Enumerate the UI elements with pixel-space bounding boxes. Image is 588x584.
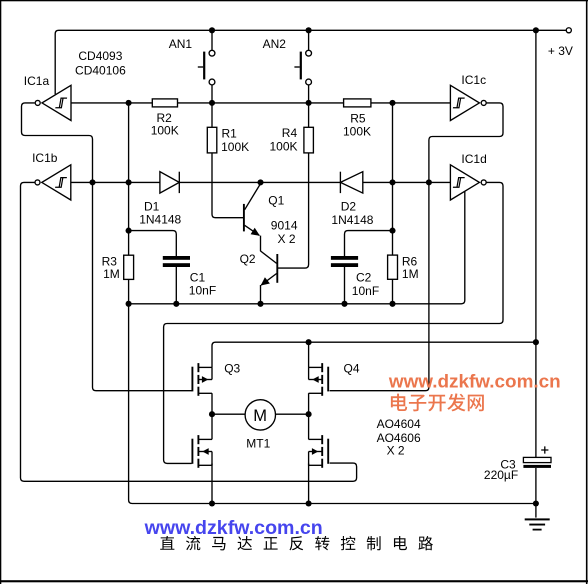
svg-text:100K: 100K [343, 125, 371, 139]
wire H-bridge top rail [212, 342, 536, 367]
svg-text:IC1a: IC1a [24, 74, 50, 88]
op-amp gate IC1b [35, 165, 71, 200]
svg-text:X 2: X 2 [387, 443, 405, 457]
wire R2 to AN1 node [178, 102, 213, 104]
wire IC1b output to Q4 lower gate [21, 182, 357, 481]
resistor R2 [152, 99, 177, 107]
wire R4 bottom to Q2 base [278, 153, 309, 268]
transistor Q4 upper MOSFET [309, 363, 329, 396]
wire D2 anode to IC1d input [363, 181, 451, 183]
push button AN1 [198, 50, 215, 85]
svg-text:MT1: MT1 [246, 437, 270, 451]
node ground rail Q3 junction [209, 500, 215, 506]
wire lower rail to IC1d pin [129, 191, 465, 304]
wire IC1a output to IC1b input [22, 103, 93, 182]
svg-text:100K: 100K [151, 124, 179, 138]
node rail R3 junction [126, 301, 132, 307]
wire motor left lead [212, 413, 245, 415]
wire AN2 bottom stub [308, 85, 310, 103]
op-amp gate IC1d [450, 165, 486, 200]
node rail C1 junction [173, 301, 179, 307]
transistor Q1 [244, 184, 261, 251]
node D mid junction [389, 179, 395, 185]
svg-text:www.dzkfw.com.cn: www.dzkfw.com.cn [144, 517, 323, 539]
wire node E to Q4 upper gate [330, 182, 429, 390]
wire AN2 top stub [308, 30, 310, 50]
svg-text:C2: C2 [356, 271, 372, 285]
motor MT1 [245, 400, 275, 430]
svg-text:10nF: 10nF [189, 283, 216, 297]
wire right column node D [392, 103, 394, 304]
svg-text:www.dzkfw.com.cn: www.dzkfw.com.cn [388, 371, 561, 392]
svg-text:CD4093: CD4093 [78, 49, 122, 63]
svg-text:Q2: Q2 [240, 252, 256, 266]
wire Q4 lower source to ground rail [308, 464, 310, 504]
diode D1 [160, 172, 179, 193]
node H-bridge top right junction [306, 339, 312, 345]
node rail Q2 junction [257, 301, 263, 307]
watermark red site name [391, 393, 484, 411]
wire ground stub [535, 504, 537, 518]
resistor R6 [388, 255, 398, 279]
transistor Q3 lower MOSFET [192, 435, 212, 468]
svg-text:IC1d: IC1d [461, 152, 486, 166]
wire Q2 emitter to rail [260, 285, 262, 304]
capacitor C2 [331, 256, 358, 267]
wire C2 top lead [345, 231, 393, 256]
svg-text:X 2: X 2 [278, 232, 296, 246]
node AN1 bottom junction [209, 100, 215, 106]
wire AN2 node to R5 [309, 102, 344, 104]
+3V terminal [566, 28, 571, 33]
wire AN1 bottom stub [211, 85, 213, 103]
capacitor C3 [523, 446, 551, 468]
wire motor right lead [275, 413, 308, 415]
wire AN1 node to AN2 node [212, 102, 309, 104]
svg-text:100K: 100K [221, 140, 249, 154]
resistor R3 [124, 255, 134, 279]
svg-text:Q3: Q3 [224, 362, 240, 376]
node motor left junction [209, 411, 215, 417]
svg-text:220µF: 220µF [484, 468, 518, 482]
diode D2 [340, 172, 362, 193]
svg-text:M: M [253, 407, 267, 425]
node AN1 top junction [209, 27, 215, 33]
svg-text:CD40106: CD40106 [75, 64, 126, 78]
svg-text:1M: 1M [103, 267, 120, 281]
wire C1 top lead [129, 231, 177, 256]
wire R1 bottom to Q1 base [212, 153, 243, 218]
node ground rail Q4 junction [306, 500, 312, 506]
svg-text:9014: 9014 [271, 219, 298, 233]
svg-text:D2: D2 [341, 199, 357, 213]
wire AN1 top stub [211, 30, 213, 50]
svg-text:AN1: AN1 [169, 37, 193, 51]
wire IC1d output to Q3 lower gate [164, 182, 503, 463]
wire +3V vertical rail [535, 30, 537, 457]
node A mid junction [126, 179, 132, 185]
node E junction [426, 179, 432, 185]
svg-text:AO4604: AO4604 [377, 417, 421, 431]
node rail R6 junction [389, 301, 395, 307]
node R6 top junction [389, 228, 395, 234]
op-amp gate IC1a [35, 85, 71, 120]
svg-text:+ 3V: + 3V [548, 44, 573, 58]
wire R1 top [211, 103, 213, 127]
svg-text:IC1b: IC1b [32, 151, 58, 165]
capacitor C1 [163, 256, 190, 267]
wire top +3V rail [55, 30, 566, 94]
push button AN2 [294, 50, 311, 85]
node H-bridge +3V junction [533, 339, 539, 345]
transistor Q4 lower MOSFET [309, 435, 329, 468]
node motor right junction [306, 411, 312, 417]
svg-text:AN2: AN2 [263, 37, 287, 51]
svg-text:R5: R5 [350, 111, 366, 125]
svg-text:100K: 100K [270, 139, 298, 153]
node AN2 top junction [306, 27, 312, 33]
svg-text:1N4148: 1N4148 [331, 213, 373, 227]
wire D1 cathode to node C [179, 181, 340, 183]
node B junction [89, 179, 95, 185]
node D top junction [389, 100, 395, 106]
node AN2 bottom junction [306, 100, 312, 106]
node R3 top junction [126, 228, 132, 234]
wire node B to Q3 upper gate [93, 182, 192, 390]
svg-text:IC1c: IC1c [461, 73, 486, 87]
title caption [160, 536, 433, 550]
svg-text:Q1: Q1 [268, 194, 284, 208]
wire Q3 lower source to ground rail [211, 464, 213, 504]
resistor R5 [344, 99, 371, 107]
wire left column node A [128, 103, 130, 304]
resistor R1 [207, 127, 217, 153]
transistor Q3 upper MOSFET [192, 363, 212, 396]
svg-text:10nF: 10nF [352, 284, 379, 298]
svg-text:D1: D1 [144, 199, 160, 213]
wire C3 bottom lead [535, 468, 537, 504]
wire IC1b input row [71, 181, 160, 183]
wire left column to ground rail [129, 304, 536, 504]
node ground rail C3 junction [533, 500, 539, 506]
node C Q1 collector junction [257, 179, 263, 185]
node rail C2 junction [341, 301, 347, 307]
op-amp gate IC1c [450, 85, 486, 120]
wire Q4 upper source to motor node [308, 393, 310, 439]
ground [525, 518, 550, 530]
wire Q4 drain column top [308, 342, 310, 367]
svg-text:1M: 1M [402, 267, 419, 281]
wire C1 bottom lead [175, 267, 177, 304]
wire IC1a input row [71, 102, 152, 104]
resistor R4 [304, 127, 314, 153]
svg-text:R1: R1 [222, 126, 238, 140]
svg-text:Q4: Q4 [344, 362, 360, 376]
svg-text:R4: R4 [282, 126, 298, 140]
wire R5 to IC1c input [371, 102, 451, 104]
wire C2 bottom lead [344, 267, 346, 304]
wire Q3 upper source to motor node [211, 393, 213, 439]
node +3V rail junction [533, 27, 539, 33]
wire R4 top [308, 103, 310, 127]
svg-text:1N4148: 1N4148 [139, 213, 181, 227]
node A row junction [126, 100, 132, 106]
transistor Q2 [260, 251, 277, 286]
wire IC1c output to node E [429, 103, 503, 182]
